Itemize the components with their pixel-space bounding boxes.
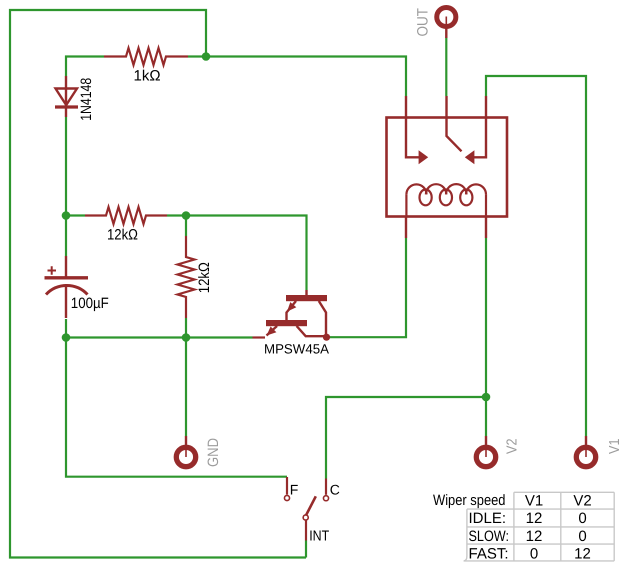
svg-text:V2: V2 — [573, 493, 591, 510]
transistor Q1 emitter arrows — [287, 302, 296, 312]
svg-text:FAST:: FAST: — [469, 546, 509, 563]
svg-text:MPSW45A: MPSW45A — [264, 341, 329, 356]
pin OUT — [414, 7, 456, 38]
pin GND — [176, 436, 222, 467]
wire 1k row — [65, 57, 406, 97]
svg-text:0: 0 — [530, 546, 538, 563]
svg-text:OUT: OUT — [414, 8, 431, 37]
junction node cap bottom rail — [62, 333, 71, 342]
wire collector to coil — [330, 238, 406, 337]
wire left rail / top wire — [10, 10, 306, 558]
transistor Q1 MPSW45A darlington — [266, 295, 327, 326]
wire OUT to relay common — [445, 38, 447, 97]
junction node 12k row right / base — [182, 211, 191, 220]
svg-text:12kΩ: 12kΩ — [196, 262, 213, 293]
relay coil — [406, 184, 486, 216]
junction node cap top / 12k row left — [62, 211, 71, 220]
svg-text:V1: V1 — [607, 439, 621, 455]
relay coil pins bottom — [406, 217, 486, 239]
pin V2 — [476, 436, 520, 467]
relay common blade — [447, 118, 462, 152]
svg-text:12: 12 — [526, 528, 543, 545]
svg-text:V2: V2 — [505, 439, 521, 455]
svg-text:F: F — [290, 481, 299, 497]
svg-text:SLOW:: SLOW: — [469, 528, 510, 545]
junction node collector — [323, 334, 330, 341]
svg-text:1N4148: 1N4148 — [78, 78, 95, 121]
transistor Q1 emitter pin — [253, 336, 266, 338]
relay right contact arm — [473, 118, 486, 158]
junction node GND rail — [182, 333, 191, 342]
switch S1 contact C — [325, 479, 327, 495]
svg-text:INT: INT — [309, 529, 329, 545]
wire GND drop — [185, 338, 187, 437]
svg-text:12kΩ: 12kΩ — [107, 227, 138, 244]
resistor R3 12k vertical — [178, 236, 195, 318]
wire relay NC contact to V1 — [486, 76, 586, 436]
relay right contact arrow — [465, 150, 475, 164]
resistor R1 1k — [104, 48, 188, 65]
svg-text:100µF: 100µF — [71, 295, 109, 312]
svg-text:1kΩ: 1kΩ — [134, 68, 161, 85]
relay left contact arm — [406, 118, 420, 158]
wire emitter rail — [66, 336, 253, 338]
svg-text:0: 0 — [578, 528, 586, 545]
svg-text:Wiper speed: Wiper speed — [433, 492, 506, 509]
svg-text:C: C — [330, 481, 340, 497]
pin V1 — [576, 436, 621, 467]
wire vertical 12k pins — [185, 216, 187, 338]
wire INT bottom — [305, 541, 307, 558]
wire base net — [186, 216, 307, 291]
capacitor C1 100uF — [45, 256, 89, 318]
relay left contact arrow — [419, 150, 429, 164]
svg-text:IDLE:: IDLE: — [469, 510, 507, 527]
wire V2 junction to C contact — [326, 397, 486, 479]
wire cap bottom / F net — [66, 319, 287, 477]
relay contact pins top — [406, 96, 486, 118]
junction node V2 / coil — [482, 393, 491, 402]
wire coil right to V2 — [485, 238, 487, 436]
table wiper speed — [464, 492, 615, 561]
switch S1 blade INT — [306, 496, 316, 515]
diode D1 1N4148 — [55, 76, 78, 117]
svg-text:12: 12 — [526, 510, 543, 527]
relay K1 box — [387, 118, 508, 217]
wire 12k row — [66, 214, 186, 216]
svg-text:GND: GND — [205, 438, 222, 467]
svg-text:0: 0 — [578, 510, 586, 527]
switch S1 common pin — [305, 521, 307, 541]
svg-text:V1: V1 — [525, 493, 543, 510]
switch S1 contact F — [286, 477, 288, 495]
junction node 1k/diode top — [202, 52, 211, 61]
wire diode column — [65, 56, 67, 257]
svg-text:12: 12 — [574, 546, 591, 563]
resistor R2 12k horizontal — [85, 207, 167, 224]
